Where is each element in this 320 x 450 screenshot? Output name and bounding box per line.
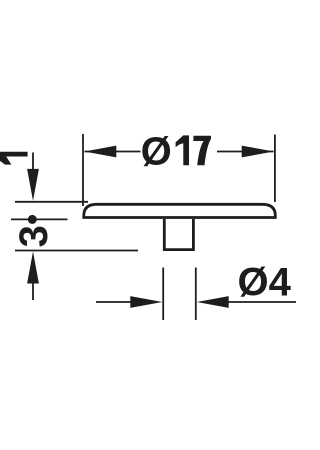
svg-text:Ø: Ø xyxy=(141,130,172,174)
extension line left (Ø4) xyxy=(162,268,164,321)
stem outline xyxy=(164,219,193,250)
up arrow shaft (dim 3) xyxy=(32,281,34,300)
svg-text:Ø4: Ø4 xyxy=(238,260,292,304)
arrowhead Ø17 right xyxy=(242,146,274,158)
label Ø17: glyph 7 xyxy=(193,136,211,166)
extension line left (Ø17) xyxy=(82,134,84,206)
down arrow shaft (dim 1) xyxy=(32,153,34,173)
extension line 3 (dim 3 bottom) xyxy=(15,250,138,252)
label Ø17: glyph 1 xyxy=(176,135,189,165)
extension line right (Ø4) xyxy=(195,268,197,321)
dimension line Ø17 right segment xyxy=(217,151,274,153)
dimension origin dot (dim 3) xyxy=(28,215,37,224)
leader line right (Ø4) xyxy=(228,301,296,303)
extension line right (Ø17) xyxy=(274,135,276,203)
arrowhead dim3 up xyxy=(27,252,39,284)
dot line (dim 3 top) xyxy=(11,218,68,220)
arrowhead dim1 down xyxy=(27,169,39,201)
extension line 1 (dim 1 top) xyxy=(15,201,88,203)
cap outline xyxy=(84,204,275,217)
dimension line Ø17 left segment xyxy=(85,151,141,153)
leader line left (Ø4) xyxy=(96,301,131,303)
arrowhead Ø17 left xyxy=(84,146,116,158)
svg-text:3: 3 xyxy=(12,225,56,247)
arrowhead Ø4 left xyxy=(130,296,162,308)
arrowhead Ø4 right xyxy=(197,296,229,308)
label 1 (rotated) xyxy=(0,152,28,165)
